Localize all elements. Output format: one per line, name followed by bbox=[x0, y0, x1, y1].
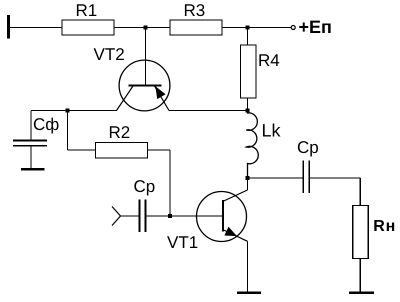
svg-text:R3: R3 bbox=[184, 1, 206, 20]
svg-text:Rн: Rн bbox=[373, 218, 396, 235]
svg-text:Lk: Lk bbox=[262, 121, 282, 141]
svg-text:Сф: Сф bbox=[33, 115, 59, 134]
svg-text:VT2: VT2 bbox=[94, 45, 125, 64]
svg-text:+Еп: +Еп bbox=[299, 17, 332, 37]
svg-text:R1: R1 bbox=[76, 1, 98, 20]
svg-text:VT1: VT1 bbox=[167, 233, 198, 252]
svg-text:Cp: Cp bbox=[134, 177, 156, 196]
svg-text:Cp: Cp bbox=[297, 138, 319, 157]
svg-text:R2: R2 bbox=[109, 123, 131, 142]
svg-text:R4: R4 bbox=[258, 51, 280, 70]
